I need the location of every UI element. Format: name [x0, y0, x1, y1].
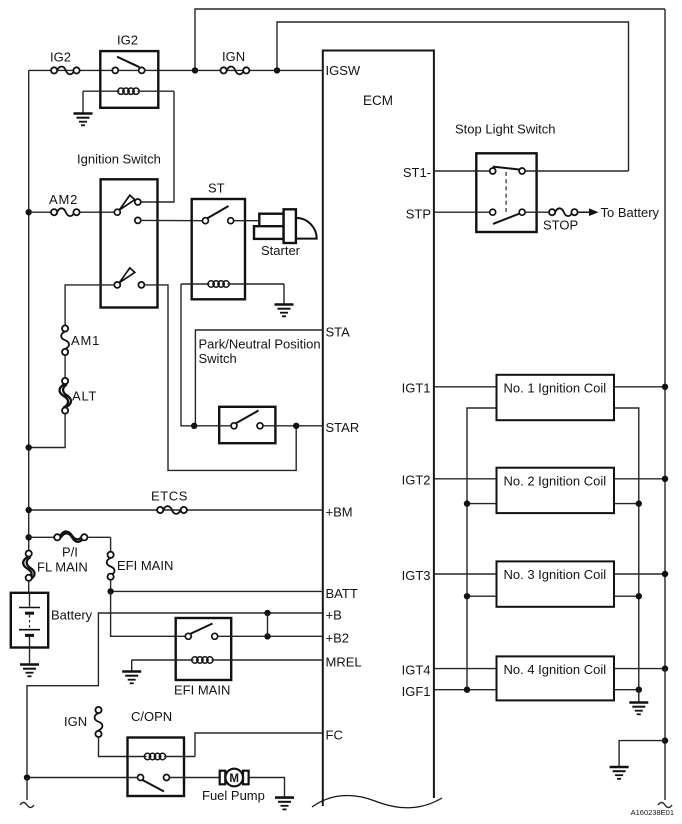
wire +B2: [218, 635, 323, 637]
svg-text:C/OPN: C/OPN: [131, 709, 172, 724]
svg-text:ALT: ALT: [72, 389, 97, 404]
fusible link FL MAIN: [23, 551, 34, 581]
ground for ignition coils: [629, 690, 648, 715]
svg-text:EFI MAIN: EFI MAIN: [117, 558, 173, 573]
relay EFI MAIN box: [176, 618, 232, 680]
node junction coil1 +B rail: [662, 384, 668, 390]
wire FC: [195, 733, 323, 757]
relay IG2 box: [100, 51, 158, 108]
wire IGT4: [434, 668, 497, 670]
ignition coil No.3 box: [497, 561, 615, 606]
fusible link AM1: [61, 325, 69, 355]
wire IGSW net: [29, 69, 323, 71]
wire top line 2: [277, 22, 629, 171]
wire left rail bottom stub: [26, 778, 28, 801]
node junction left rail at AM2: [26, 209, 32, 215]
svg-text:IGSW: IGSW: [326, 63, 361, 78]
svg-text:ST1-: ST1-: [403, 165, 431, 180]
node junction left rail +BM: [26, 507, 32, 513]
fuse STOP: [549, 208, 578, 216]
wire coil2 low-left: [467, 503, 497, 505]
wire FL MAIN to battery: [28, 581, 30, 593]
wire left rail (top section): [28, 70, 30, 553]
park/neutral position switch contacts: [231, 411, 263, 429]
svg-text:Park/Neutral Position: Park/Neutral Position: [199, 337, 321, 352]
wire coil3 low-right: [614, 595, 639, 597]
stop light switch STP contacts: [490, 209, 525, 224]
ignition switch IG/ST contacts (upper switch): [114, 195, 141, 223]
wire coil3 to +B rail: [614, 573, 665, 575]
ignition switch lower (ST2) switch: [114, 268, 144, 288]
ground below IG2 relay coil: [74, 91, 93, 125]
wire coil4 low-right: [614, 689, 639, 691]
svg-text:STOP: STOP: [543, 218, 578, 233]
wire IG2 coil to ignition switch IG contact: [141, 91, 174, 202]
node junction coil3 ground rail: [636, 593, 642, 599]
node junction STAR right: [293, 423, 299, 429]
relay IG2 coil: [83, 88, 174, 94]
svg-text:No. 1 Ignition Coil: No. 1 Ignition Coil: [504, 381, 607, 396]
ignition coil No.2 box: [497, 468, 615, 513]
wire to battery arrow: [578, 208, 599, 216]
relay IG2 switch: [112, 57, 144, 74]
svg-text:No. 2 Ignition Coil: No. 2 Ignition Coil: [504, 474, 607, 489]
svg-text:FC: FC: [326, 728, 343, 743]
ground at bottom right: [610, 767, 629, 779]
svg-text:IG2: IG2: [50, 50, 71, 65]
starter motor symbol: [254, 209, 317, 243]
fuse IGN (bottom): [95, 707, 103, 737]
ignition coil No.1 box: [497, 375, 615, 420]
svg-text:IGN: IGN: [64, 714, 87, 729]
svg-text:+BM: +BM: [326, 505, 353, 520]
svg-text:No. 3 Ignition Coil: No. 3 Ignition Coil: [504, 567, 607, 582]
svg-text:P/I: P/I: [62, 545, 78, 560]
svg-text:STAR: STAR: [326, 420, 360, 435]
wire AM1 to ALT: [64, 355, 66, 378]
fuse IGN: [221, 67, 250, 75]
node junction coil4 +B rail: [662, 665, 668, 671]
wire ignition ST2 to STAR detour: [144, 285, 296, 471]
relay ST coil: [181, 281, 284, 287]
wire IGT3: [434, 573, 497, 575]
svg-text:+B: +B: [326, 608, 342, 623]
svg-text:ETCS: ETCS: [151, 489, 188, 504]
svg-text:ST: ST: [208, 181, 225, 196]
wire +BM: [29, 509, 323, 511]
wire BATT: [111, 580, 323, 592]
wire ALT to left rail: [29, 414, 65, 448]
svg-text:STP: STP: [406, 207, 431, 222]
svg-text:Battery: Battery: [51, 608, 93, 623]
svg-text:AM2: AM2: [49, 192, 78, 207]
fuse AM2: [32, 208, 115, 216]
fuse ETCS: [157, 506, 187, 514]
svg-text:IGF1: IGF1: [402, 684, 431, 699]
svg-text:To Battery: To Battery: [601, 205, 660, 220]
wire break symbol left rail bottom: [20, 803, 34, 808]
fusible link ALT: [60, 378, 71, 414]
park/neutral position switch box: [219, 407, 275, 443]
svg-text:BATT: BATT: [326, 586, 358, 601]
svg-text:IGN: IGN: [222, 49, 245, 64]
wire +B: [27, 613, 323, 774]
svg-text:No. 4 Ignition Coil: No. 4 Ignition Coil: [504, 662, 607, 677]
svg-text:M: M: [229, 773, 239, 785]
node junction coil2 IGF rail: [464, 500, 470, 506]
wire IGN fuse to C/OPN coil: [99, 737, 147, 757]
wire ST coil drop to STAR node: [181, 284, 194, 426]
wire coil4 to +B rail: [614, 668, 665, 670]
node junction left rail P/I: [26, 534, 32, 540]
relay ST switch: [202, 206, 233, 224]
wire coil2 low-right: [614, 503, 639, 505]
node junction left rail ALT return: [26, 444, 32, 450]
wire IGT2: [434, 478, 497, 480]
ignition coil No.4 box: [497, 656, 615, 700]
wire coil2 to +B rail: [614, 478, 665, 480]
stop light switch mechanical link (dashed): [505, 172, 507, 214]
relay C/OPN coil: [144, 753, 195, 759]
node junction IGF1 rail: [464, 687, 470, 693]
wire right +B rail lower section: [664, 669, 666, 800]
wire right rail ground tap: [619, 741, 665, 767]
wire coil1 low-left to IGF rail: [467, 408, 497, 690]
svg-text:AM1: AM1: [71, 333, 100, 348]
node junction coil2 +B rail: [662, 476, 668, 482]
svg-text:IGT3: IGT3: [402, 568, 431, 583]
wire coil1 to +B rail: [614, 386, 665, 388]
node junction +B2 tie: [264, 633, 270, 639]
fusible link P/I: [29, 531, 111, 541]
relay EFI MAIN switch: [185, 624, 217, 640]
svg-text:IG2: IG2: [117, 33, 138, 48]
wire P/I to EFI MAIN fuse: [110, 537, 112, 551]
node junction on IGSW wire at x=195: [192, 67, 198, 73]
svg-text:ECM: ECM: [363, 93, 393, 108]
wire battery feed to EFI MAIN relay: [111, 591, 186, 636]
node junction BATT: [107, 588, 113, 594]
svg-text:Starter: Starter: [261, 243, 301, 258]
ground for ST relay coil: [275, 284, 294, 316]
svg-text:Stop Light Switch: Stop Light Switch: [455, 122, 555, 137]
node junction coil4 ground rail: [636, 687, 642, 693]
wavy bottom edge of ECM: [312, 795, 442, 807]
node junction coil3 +B rail: [662, 571, 668, 577]
svg-text:Switch: Switch: [199, 351, 237, 366]
wire fuel pump to ground: [249, 778, 285, 798]
relay ST box: [192, 199, 245, 299]
svg-text:+B2: +B2: [326, 631, 350, 646]
svg-text:STA: STA: [326, 325, 351, 340]
stop light switch ST1- contacts: [490, 167, 525, 174]
wire IGT1: [434, 386, 497, 388]
svg-text:FL MAIN: FL MAIN: [37, 560, 88, 575]
wire tie between +B and +B2: [267, 613, 269, 636]
ECM box: [312, 51, 442, 808]
wire STAR: [194, 425, 323, 427]
fuse EFI MAIN: [107, 552, 115, 580]
ground below battery: [20, 648, 39, 677]
ground for EFI MAIN coil: [122, 660, 141, 683]
node junction +B tie: [264, 610, 270, 616]
svg-text:Ignition Switch: Ignition Switch: [77, 152, 161, 167]
node junction on IGSW wire at x=277: [274, 67, 280, 73]
node junction right rail ground tap: [662, 737, 668, 743]
node junction left rail fuel pump row: [24, 774, 30, 780]
fuse IG2: [51, 67, 80, 75]
svg-text:A160238E01: A160238E01: [631, 808, 674, 817]
wire ST1-: [434, 170, 629, 172]
ignition switch box: [101, 179, 158, 307]
svg-text:MREL: MREL: [326, 655, 362, 670]
relay C/OPN box: [128, 738, 185, 797]
relay C/OPN switch: [138, 775, 170, 792]
wire ignition switch AM1 branch: [65, 285, 114, 326]
wire C/OPN switch to fuel pump: [170, 777, 220, 779]
svg-text:EFI MAIN: EFI MAIN: [174, 683, 230, 698]
wire left rail to C/OPN switch: [27, 777, 138, 779]
node junction STAR left: [191, 423, 197, 429]
node junction coil3 IGF rail: [464, 593, 470, 599]
svg-text:IGT4: IGT4: [402, 663, 431, 678]
relay EFI MAIN coil: [132, 657, 323, 663]
wire top line 1: [195, 9, 665, 70]
wire ST relay to starter: [234, 220, 260, 222]
node junction coil2 ground rail: [636, 500, 642, 506]
wire STP: [434, 211, 549, 213]
fuel pump motor: [220, 769, 249, 787]
svg-text:IGT2: IGT2: [402, 473, 431, 488]
wire STA: [195, 330, 322, 426]
battery: [11, 593, 48, 648]
wire ignition switch ST contact to ST relay: [141, 219, 206, 221]
svg-text:IGT1: IGT1: [402, 381, 431, 396]
wire coil1 low-right to ground rail: [614, 408, 639, 690]
wire right +B rail: [664, 9, 666, 669]
stop light switch box: [476, 153, 536, 232]
wire IGF1: [434, 689, 497, 691]
wire coil3 low-left: [467, 595, 497, 597]
ground for fuel pump: [275, 798, 294, 810]
svg-text:Fuel Pump: Fuel Pump: [202, 788, 265, 803]
wire break symbol right rail bottom: [658, 803, 672, 808]
